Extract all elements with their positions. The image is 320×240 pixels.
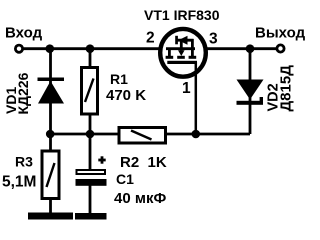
node dot A top VD1 — [46, 44, 55, 53]
resistor R3 — [42, 151, 59, 199]
terminal input — [15, 45, 22, 52]
svg-text:470 K: 470 K — [106, 87, 146, 104]
resistor R1 — [82, 68, 98, 115]
transistor VT1 channel tick left — [166, 56, 174, 59]
svg-text:Вход: Вход — [5, 25, 43, 42]
transistor VT1 body circle — [160, 29, 206, 77]
resistor R2 — [119, 128, 166, 144]
capacitor C1 plus sign — [98, 159, 105, 162]
wire top left segment — [24, 47, 160, 50]
wire VD1/R3 column — [49, 49, 52, 214]
diode VD1 triangle — [38, 81, 64, 104]
svg-text:5,1М: 5,1М — [2, 174, 36, 191]
transistor VT1 bridge — [176, 39, 194, 42]
node dot F mid gate — [192, 130, 201, 139]
node dot C top VD2 — [246, 44, 255, 53]
capacitor C1 top plate — [77, 170, 106, 174]
svg-text:1K: 1K — [148, 154, 167, 171]
transistor VT1 channel tick middle — [177, 56, 185, 59]
wire VT1 gate to node — [195, 62, 198, 134]
diode VD2 zener hook — [260, 97, 263, 101]
wire top right segment — [205, 47, 277, 50]
svg-text:КД226: КД226 — [15, 72, 31, 114]
svg-text:Выход: Выход — [255, 25, 306, 42]
wire C1 lower — [89, 185, 92, 214]
node dot E mid C1 — [86, 130, 95, 139]
wire middle horizontal — [51, 133, 251, 136]
diode VD2 cathode bar — [237, 101, 264, 105]
capacitor C1 bottom plate — [76, 179, 107, 186]
svg-text:R3: R3 — [15, 154, 33, 170]
terminal output — [277, 45, 284, 52]
svg-text:VT1 IRF830: VT1 IRF830 — [144, 7, 220, 23]
svg-text:40 мкФ: 40 мкФ — [114, 190, 166, 207]
diode VD2 triangle — [237, 80, 264, 100]
transistor VT1 substrate stub — [180, 40, 183, 50]
transistor VT1 bridge tick — [175, 36, 178, 45]
svg-text:C1: C1 — [116, 171, 134, 187]
transistor VT1 drain stub right — [191, 39, 194, 57]
svg-text:R2: R2 — [120, 154, 139, 171]
transistor VT1 internal rail — [166, 47, 195, 50]
ground left — [28, 213, 73, 220]
transistor VT1 source stub left — [168, 49, 171, 57]
svg-text:Д815Д: Д815Д — [278, 65, 295, 112]
node dot B top R1 — [86, 44, 95, 53]
wire C1 upper — [89, 134, 92, 170]
transistor VT1 bridge arrow — [178, 36, 187, 45]
svg-text:1: 1 — [182, 80, 191, 97]
ground right — [75, 213, 107, 220]
svg-text:3: 3 — [209, 30, 218, 47]
transistor VT1 channel tick right — [189, 56, 197, 59]
transistor VT1 substrate arrow — [178, 50, 185, 56]
wire R1 column — [89, 49, 92, 134]
node dot D mid VD1 — [46, 130, 55, 139]
svg-text:R1: R1 — [110, 71, 128, 87]
transistor VT1 gate bar — [167, 61, 197, 64]
svg-text:2: 2 — [146, 30, 155, 47]
wire VD2 column — [249, 49, 252, 134]
diode VD1 cathode bar — [38, 78, 65, 82]
